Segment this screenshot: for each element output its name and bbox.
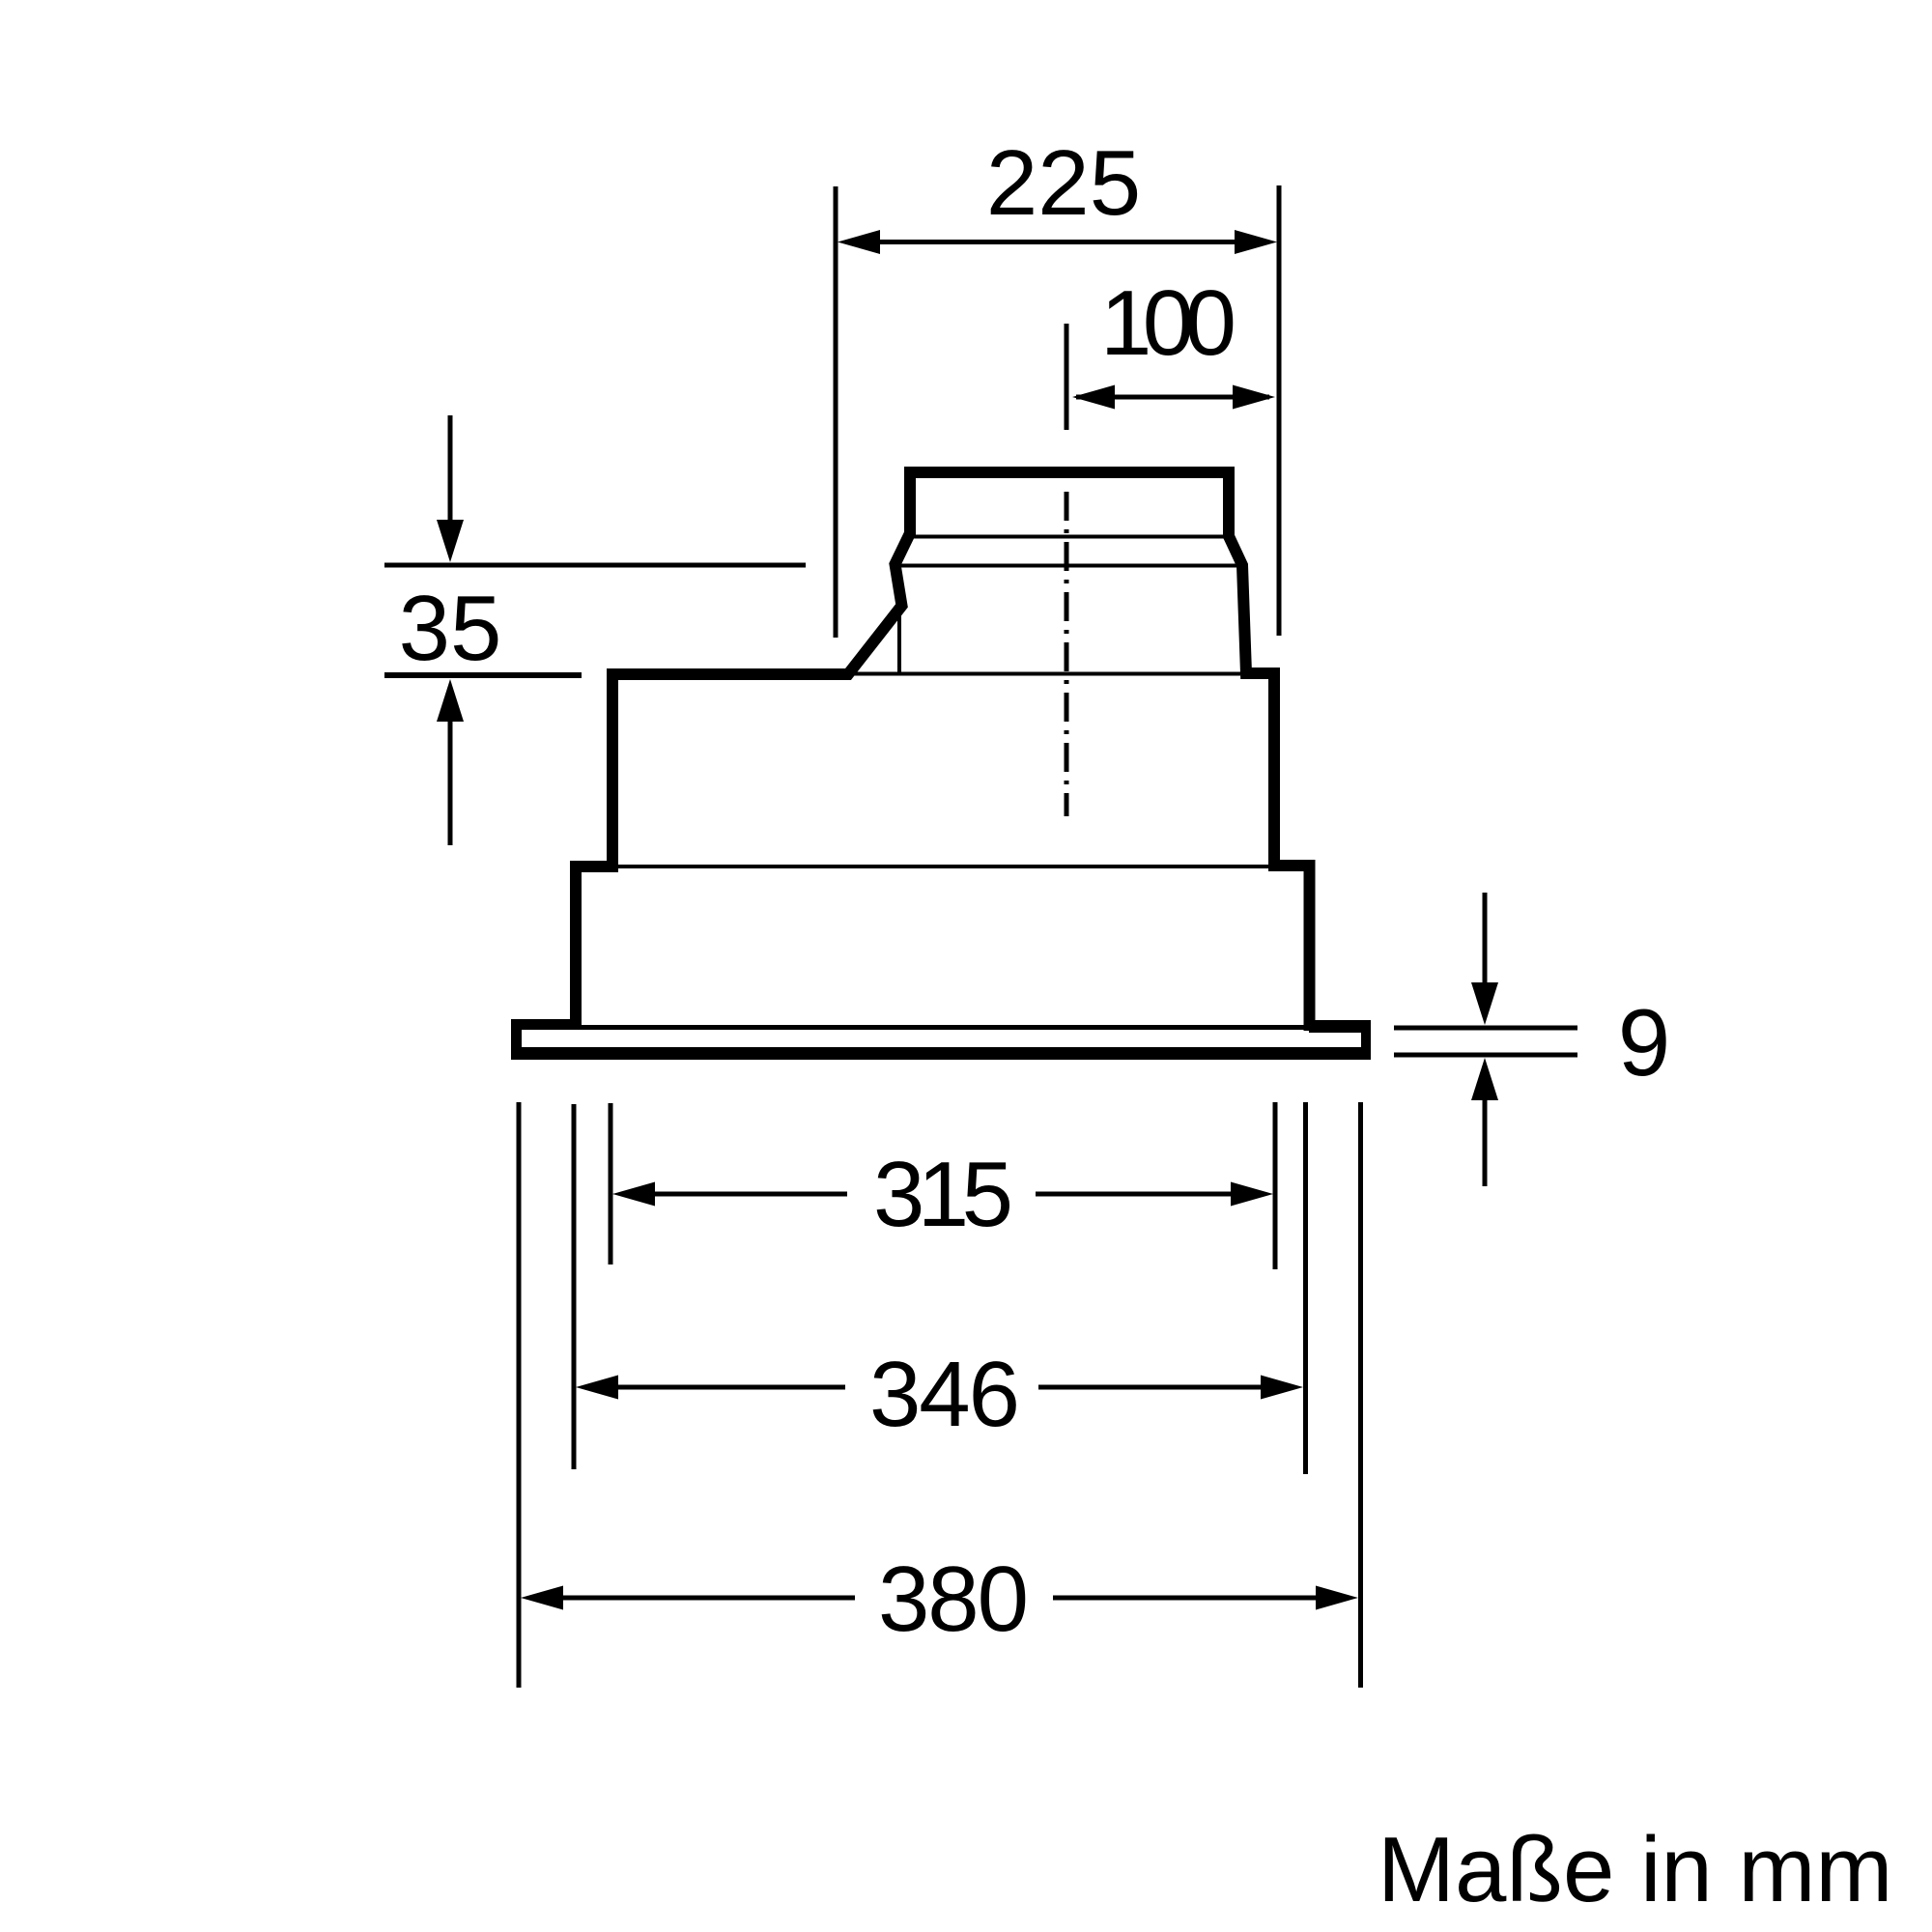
svg-text:225: 225 (986, 131, 1141, 235)
svg-text:35: 35 (399, 577, 502, 680)
svg-text:346: 346 (869, 1343, 1020, 1446)
svg-text:100: 100 (1100, 271, 1236, 375)
svg-text:380: 380 (878, 1548, 1029, 1651)
svg-text:9: 9 (1618, 989, 1671, 1095)
svg-text:315: 315 (873, 1143, 1013, 1246)
svg-text:Maße in mm: Maße in mm (1378, 1818, 1892, 1921)
